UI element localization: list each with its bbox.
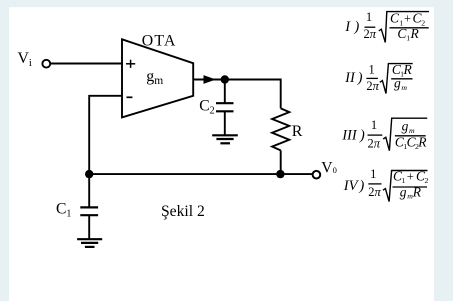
wire node B to output terminal — [280, 173, 313, 175]
op-amp U1 - input pin label — [127, 96, 133, 98]
terminal V0 — [313, 171, 321, 179]
svg-text:2π: 2π — [368, 185, 381, 199]
svg-text:m: m — [401, 83, 407, 92]
op-amp U1 OTA body — [122, 39, 193, 117]
svg-text:1: 1 — [371, 118, 377, 132]
resistor R — [272, 108, 289, 150]
svg-text:R: R — [417, 135, 427, 150]
svg-text:OTA: OTA — [142, 32, 177, 49]
formula III — [341, 118, 427, 151]
wire capacitor C1 to ground — [88, 215, 90, 239]
wire OTA output to node A — [193, 79, 225, 81]
svg-text:m: m — [409, 126, 415, 135]
formula I — [344, 10, 429, 43]
junction node B — [276, 170, 284, 178]
wire OTA - input feedback — [89, 96, 122, 174]
formula II — [344, 62, 413, 94]
output arrowhead — [204, 75, 216, 84]
wire node C to node B bottom rail — [89, 173, 281, 175]
svg-text:): ) — [357, 70, 363, 86]
ground below C1 — [77, 239, 102, 247]
formula IV — [343, 167, 429, 202]
svg-text:+: + — [407, 169, 414, 183]
svg-text:2π: 2π — [368, 136, 381, 150]
svg-text:): ) — [353, 19, 359, 35]
wire node A to resistor branch — [225, 80, 281, 109]
wire capacitor C2 to ground — [224, 111, 226, 135]
svg-text:Şekil 2: Şekil 2 — [161, 203, 205, 220]
capacitor C1 — [80, 207, 98, 215]
svg-text:1: 1 — [366, 10, 372, 24]
svg-text:): ) — [358, 178, 364, 194]
terminal Vi — [42, 60, 50, 68]
svg-text:1: 1 — [368, 62, 374, 76]
svg-text:II: II — [344, 70, 356, 86]
svg-text:R: R — [410, 26, 420, 41]
svg-text:2: 2 — [421, 18, 425, 27]
svg-text:g: g — [400, 184, 407, 199]
capacitor C2 — [216, 103, 234, 111]
svg-text:R: R — [412, 184, 422, 199]
svg-text:1: 1 — [370, 167, 376, 181]
svg-text:R: R — [292, 123, 303, 140]
op-amp U1 + input pin label — [126, 60, 135, 68]
svg-text:2: 2 — [425, 176, 429, 185]
svg-text:2π: 2π — [366, 79, 379, 93]
wire Vi to OTA + input — [50, 63, 122, 65]
junction node A — [221, 75, 229, 83]
junction node C — [85, 170, 93, 178]
svg-text:2π: 2π — [364, 27, 377, 41]
wire resistor R to node B — [280, 150, 282, 174]
svg-text:): ) — [359, 128, 365, 144]
svg-text:III: III — [341, 128, 358, 144]
svg-text:g: g — [394, 76, 401, 91]
wire node C to capacitor C1 — [88, 174, 90, 207]
svg-text:IV: IV — [343, 178, 360, 194]
svg-text:R: R — [403, 62, 413, 77]
wire node A to capacitor C2 — [224, 80, 226, 104]
ground below C2 — [212, 135, 238, 143]
svg-text:g: g — [402, 118, 409, 133]
svg-text:+: + — [404, 12, 411, 26]
